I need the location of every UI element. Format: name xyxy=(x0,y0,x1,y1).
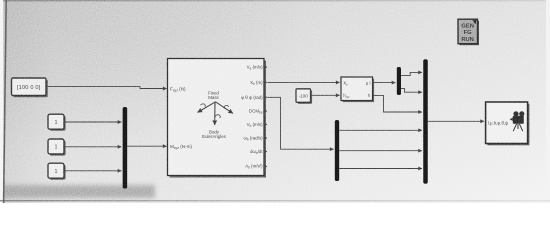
6DOF center icon: rotation arcs xyxy=(201,104,230,118)
6DOF block body xyxy=(168,59,267,178)
wire: const3 to mux M1 xyxy=(65,170,122,172)
top edge dark line xyxy=(0,0,550,1)
wire: mu-l output to demux D1 xyxy=(373,82,396,84)
constant block -100 xyxy=(296,89,312,104)
6DOF output port chevrons xyxy=(264,65,267,168)
wire: const2 to mux M1 xyxy=(65,146,122,148)
6DOF input port labels xyxy=(170,86,192,150)
wire: D2 out2 to big mux xyxy=(339,150,422,152)
wire: -100 to href input xyxy=(311,94,340,96)
demux D2 bar (phi theta psi) xyxy=(335,120,339,181)
constant block 1 (middle) xyxy=(48,139,66,156)
right white margin xyxy=(546,0,550,203)
left slanted edge line xyxy=(4,0,7,203)
wire: D2 out1 to big mux xyxy=(339,129,422,131)
mux M1 bar xyxy=(123,107,128,189)
bottom dark line xyxy=(0,200,550,201)
FlightGear animation block xyxy=(486,102,530,145)
demux D1 bar (mu l) xyxy=(397,67,401,95)
constant block [100 0 0] xyxy=(12,78,48,97)
wire: big mux to animation block xyxy=(428,120,484,122)
wire: phi-theta-psi output to demux D2 xyxy=(267,97,333,149)
6DOF center icon: Fixed Mass label xyxy=(208,91,219,101)
constant block 1 (top) xyxy=(48,114,66,131)
6DOF center icon: Body Euler Angles label xyxy=(202,130,226,140)
6DOF center icon: axes triad xyxy=(198,102,234,125)
constant block 1 (bottom) xyxy=(48,163,66,180)
wire: constant to Fxyz input xyxy=(47,87,167,89)
camera icon xyxy=(510,111,525,124)
wire: D1 out2 to big mux xyxy=(401,89,422,93)
left white margin xyxy=(0,0,3,203)
wire: Xe output to FlatEarth block xyxy=(267,81,339,83)
wire: h output to big mux xyxy=(373,95,422,112)
big mux bar xyxy=(423,59,428,184)
wire: D2 out3 to big mux xyxy=(339,168,422,170)
FlatEarth-to-LLA block xyxy=(341,77,374,102)
6DOF output port labels xyxy=(241,65,263,170)
wire: mux M1 to Mxyz input xyxy=(127,145,166,147)
GEN FG RUN block xyxy=(458,19,479,45)
wire: const1 to mux M1 xyxy=(65,121,122,123)
bottom-left smudge xyxy=(0,185,155,198)
wire: D1 out1 to big mux xyxy=(401,72,422,75)
